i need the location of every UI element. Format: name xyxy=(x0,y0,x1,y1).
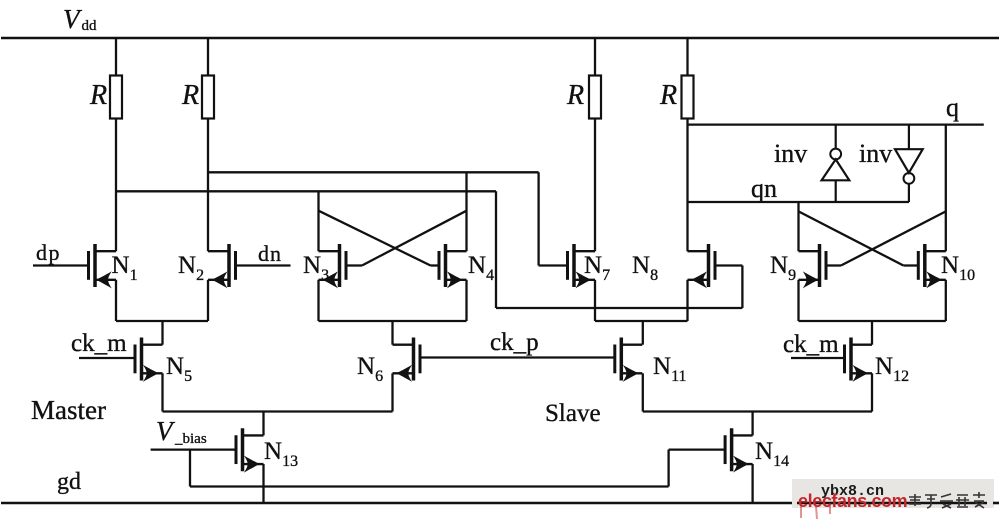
wire N9-N10 source join xyxy=(799,320,946,322)
wire join to N12 drain xyxy=(871,321,873,345)
transistor N9 xyxy=(799,244,827,288)
svg-text:ck_m: ck_m xyxy=(783,331,839,358)
wire N14 source to gd xyxy=(751,464,753,503)
wire join to N6 drain xyxy=(391,321,393,345)
svg-text:R: R xyxy=(181,80,199,111)
wire V_bias drop xyxy=(189,450,191,487)
wire mqb drop vertical xyxy=(495,191,497,308)
transistor N4 xyxy=(439,244,467,288)
svg-text:N13: N13 xyxy=(264,438,298,470)
wire N3 drain vertical xyxy=(317,191,319,251)
wire N1 source vertical xyxy=(115,280,117,321)
wire N13 source to gd xyxy=(262,464,264,503)
wire V_bias cross to N14 xyxy=(190,485,669,487)
resistor R4 xyxy=(682,76,694,119)
wire cross-couple diagonal N10 drain to N9 gate xyxy=(841,211,946,265)
svg-text:V: V xyxy=(63,4,83,34)
svg-text:Master: Master xyxy=(31,395,106,425)
svg-text:_bias: _bias xyxy=(174,431,207,447)
wire qn line xyxy=(688,201,910,203)
wire ck_p xyxy=(420,356,615,358)
wire N10 source vertical xyxy=(945,280,947,321)
wire N2 source vertical xyxy=(207,280,209,321)
transistor N7 xyxy=(568,244,596,288)
inverter U2 triangle xyxy=(895,149,923,173)
wire node mqb horizontal xyxy=(116,190,496,192)
svg-text:R: R xyxy=(566,80,584,111)
svg-text:N12: N12 xyxy=(875,353,909,385)
wire N8 gate lead xyxy=(715,264,742,266)
wire q line xyxy=(688,123,984,125)
wire Vdd to R2 xyxy=(207,38,209,76)
wire cross-couple diagonal N9 drain to N10 gate xyxy=(799,211,904,265)
wire N3 gate lead xyxy=(346,264,362,266)
wire N3-N4 source join xyxy=(319,320,467,322)
wire N4 gate lead xyxy=(431,264,440,266)
svg-text:inv: inv xyxy=(859,139,892,168)
transistor N10 xyxy=(918,244,946,288)
svg-text:N9: N9 xyxy=(770,252,796,284)
wire N9 gate lead xyxy=(826,264,841,266)
wire mqb horizontal low xyxy=(496,307,742,309)
transistor N12 xyxy=(845,338,873,382)
wire N9 source vertical xyxy=(797,280,799,321)
resistor R3 xyxy=(589,76,601,119)
svg-text:ck_m: ck_m xyxy=(71,330,127,357)
svg-text:Slave: Slave xyxy=(545,400,601,427)
transistor N2 xyxy=(208,244,236,288)
inverter U2 input wire xyxy=(908,125,910,150)
wire N9 drain vertical xyxy=(797,202,799,251)
wire join to N13 drain xyxy=(262,412,264,436)
transistor N8 xyxy=(688,244,716,288)
wire N5 source vertical xyxy=(161,373,163,411)
svg-text:N8: N8 xyxy=(632,252,658,284)
wire Vdd to R1 xyxy=(115,38,117,76)
transistor N14 xyxy=(725,428,753,472)
svg-text:N6: N6 xyxy=(357,353,383,385)
svg-text:gd: gd xyxy=(57,469,81,495)
Vdd rail xyxy=(1,37,999,40)
resistor R1 xyxy=(110,76,122,119)
svg-text:q: q xyxy=(946,93,959,122)
inverter U1 input wire xyxy=(835,180,837,202)
wire join to N11 drain xyxy=(642,321,644,345)
inverter U2 bubble xyxy=(904,173,915,184)
inverter U1 triangle xyxy=(822,159,850,180)
wire N8 source vertical xyxy=(686,280,688,321)
svg-text:N2: N2 xyxy=(178,252,204,284)
svg-text:N10: N10 xyxy=(941,252,975,284)
wire N5-N6 source join xyxy=(163,410,393,412)
wire q drop to N10 drain xyxy=(945,125,947,252)
wire N10 gate lead xyxy=(903,264,918,266)
wire N4 source vertical xyxy=(465,280,467,321)
resistor R2 xyxy=(202,76,214,119)
wire ck_m input left xyxy=(79,357,135,359)
wire N14 gate riser xyxy=(667,450,669,487)
inverter U1 bubble xyxy=(830,149,841,160)
svg-text:R: R xyxy=(659,80,677,111)
wire N8 gate riser xyxy=(741,266,743,309)
wire R2 to N2 drain xyxy=(207,119,209,252)
svg-text:elecfans.com: elecfans.com xyxy=(798,491,907,511)
transistor N11 xyxy=(615,338,643,382)
svg-text:N14: N14 xyxy=(755,438,789,470)
wire Vdd to R4 xyxy=(686,38,688,76)
wire N12 source vertical xyxy=(871,373,873,411)
wire N7-N8 source join xyxy=(595,320,688,322)
watermark background xyxy=(792,479,994,508)
inverter U2 output wire xyxy=(908,184,910,202)
transistor N6 xyxy=(393,338,421,382)
svg-text:inv: inv xyxy=(774,139,807,168)
transistor N3 xyxy=(319,244,347,288)
watermark chinese characters xyxy=(909,492,985,508)
svg-text:N5: N5 xyxy=(166,353,192,385)
wire N6 source vertical xyxy=(391,373,393,411)
wire N3 source vertical xyxy=(317,280,319,321)
wire cross-couple diagonal N4 drain to N3 gate xyxy=(362,211,467,266)
wire R1 to N1 drain xyxy=(115,119,117,252)
svg-text:dd: dd xyxy=(82,18,98,34)
svg-text:qn: qn xyxy=(751,174,777,203)
wire dn input xyxy=(236,264,291,266)
svg-text:R: R xyxy=(89,80,107,111)
wire V_bias input xyxy=(151,448,236,450)
svg-text:dp: dp xyxy=(36,240,61,265)
gd rail xyxy=(1,502,792,505)
inverter U1 output wire xyxy=(835,125,837,149)
transistor N1 xyxy=(89,244,117,288)
wire N1-N2 source join xyxy=(116,320,208,322)
transistor N13 xyxy=(236,428,264,472)
wire cross-couple diagonal N3 drain to N4 gate xyxy=(319,211,431,266)
wire N7 gate lead xyxy=(539,264,568,266)
svg-text:N11: N11 xyxy=(653,353,686,385)
wire N14 gate lead xyxy=(669,448,726,450)
wire dp input xyxy=(33,264,89,266)
watermark red seal remnants xyxy=(801,506,830,519)
wire node mq horizontal xyxy=(208,171,539,173)
wire N7 source vertical xyxy=(594,280,596,321)
svg-text:dn: dn xyxy=(258,241,282,266)
transistor N5 xyxy=(135,338,163,382)
wire R3 to N7 drain xyxy=(594,119,596,252)
wire N7 gate vertical xyxy=(537,172,539,265)
wire N11-N12 source join xyxy=(643,410,872,412)
wire ck_m input right xyxy=(791,357,845,359)
wire join to N5 drain xyxy=(161,321,163,345)
wire R4 to N8 drain xyxy=(686,119,688,252)
wire N4 drain vertical xyxy=(465,172,467,251)
svg-text:V: V xyxy=(156,416,176,446)
svg-text:N3: N3 xyxy=(303,252,329,284)
svg-text:ck_p: ck_p xyxy=(490,329,539,356)
wire N11 source vertical xyxy=(642,373,644,411)
svg-text:N4: N4 xyxy=(468,252,494,284)
wire join to N14 drain xyxy=(751,412,753,436)
wire Vdd to R3 xyxy=(594,38,596,76)
